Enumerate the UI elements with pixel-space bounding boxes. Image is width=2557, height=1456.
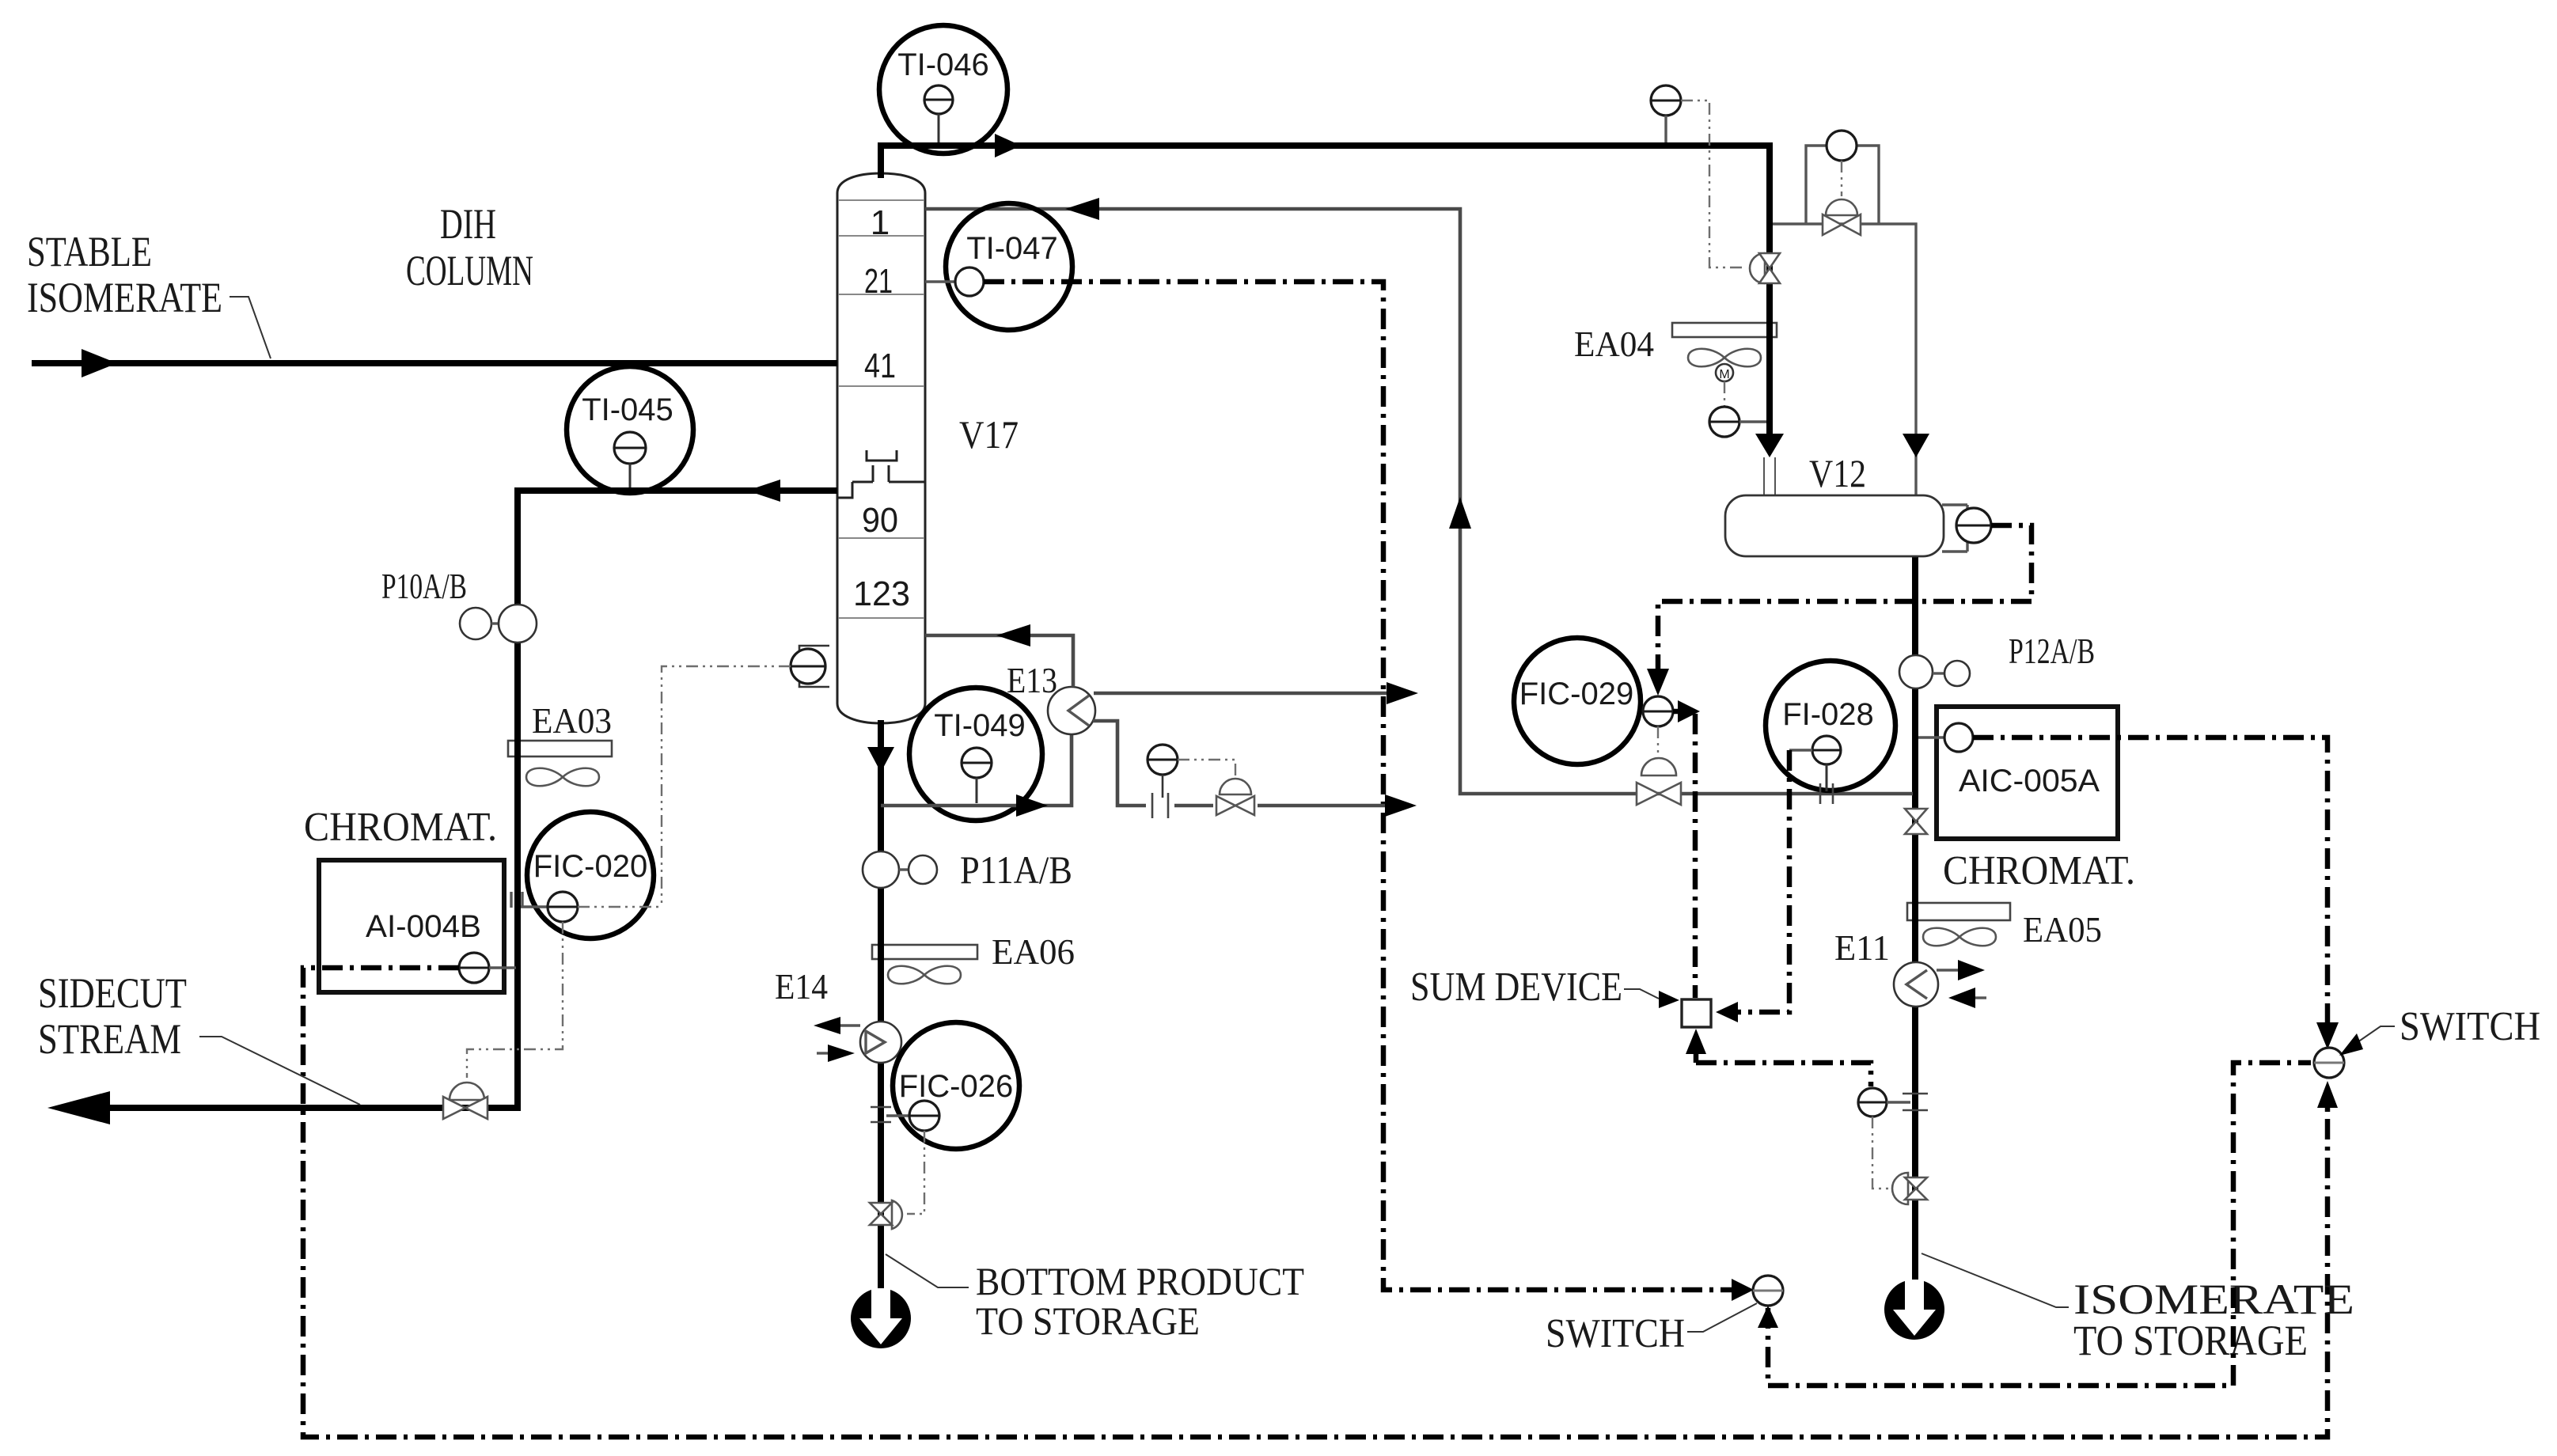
svg-text:21: 21 xyxy=(864,262,893,301)
op FIC-020 xyxy=(521,812,662,938)
reboiler feed line to E13 xyxy=(881,734,1072,806)
overhead arrow right xyxy=(995,134,1021,157)
bypass control valve xyxy=(1823,214,1842,235)
level nozzle instrument on column bottom xyxy=(791,646,829,687)
sidecut arrow at left end xyxy=(47,1091,110,1124)
op FIC-026 xyxy=(871,1022,1019,1149)
chromatograph AIC-005A xyxy=(1918,707,2135,893)
signal V12 level to FIC-029 xyxy=(1658,525,2032,669)
svg-text:E11: E11 xyxy=(1834,927,1890,968)
wire bypass loop xyxy=(1773,146,1916,495)
V12 level instrument xyxy=(1942,505,1991,552)
switch circle left xyxy=(1546,1276,1783,1356)
svg-text:AIC-005A: AIC-005A xyxy=(1959,764,2100,798)
pump P10A/B xyxy=(381,566,537,643)
op TI-047 xyxy=(925,203,1072,330)
svg-text:M: M xyxy=(1719,368,1729,381)
svg-text:P10A/B: P10A/B xyxy=(381,566,467,606)
reflux arrow up xyxy=(1449,497,1471,529)
tray lines xyxy=(838,200,924,618)
svg-text:TO STORAGE: TO STORAGE xyxy=(2073,1317,2308,1364)
product valve xyxy=(1905,809,1927,821)
condensate control valve xyxy=(1216,796,1235,815)
bottoms valve actuator (dome right) xyxy=(892,1200,902,1229)
sidecut valve actuator xyxy=(450,1083,484,1100)
air cooler EA06 xyxy=(872,931,1075,984)
overhead valve actuator (dome facing left) xyxy=(1750,253,1765,283)
leader isomerate to storage xyxy=(1922,1253,2069,1307)
E13 condensate line xyxy=(1093,721,1390,806)
exchanger E11 xyxy=(1834,927,1986,1008)
svg-text:EA03: EA03 xyxy=(532,700,612,741)
bottoms arrow down xyxy=(867,747,894,772)
exchanger E14 xyxy=(775,966,901,1063)
svg-text:EA06: EA06 xyxy=(992,931,1075,972)
svg-text:41: 41 xyxy=(864,347,896,385)
signal FIC-029 to reflux valve xyxy=(1657,726,1659,761)
svg-text:BOTTOM PRODUCT: BOTTOM PRODUCT xyxy=(976,1259,1304,1303)
svg-text:FI-028: FI-028 xyxy=(1782,697,1874,732)
lower product control valve xyxy=(1905,1177,1927,1189)
svg-text:ISOMERATE: ISOMERATE xyxy=(27,274,222,321)
svg-text:90: 90 xyxy=(862,501,898,540)
svg-text:V12: V12 xyxy=(1809,451,1866,495)
svg-text:CHROMAT.: CHROMAT. xyxy=(1943,848,2135,893)
instrument on condensate xyxy=(1148,745,1178,775)
svg-text:FIC-029: FIC-029 xyxy=(1519,677,1634,711)
sidecut control valve xyxy=(443,1097,465,1119)
svg-text:TI-045: TI-045 xyxy=(582,392,673,427)
storage symbol bottoms xyxy=(851,1288,911,1348)
product valve actuator (dome left) xyxy=(1892,1173,1908,1204)
signal AIC-005A to right switch xyxy=(1973,737,2327,1041)
air cooler EA04 xyxy=(1574,320,1777,437)
op FI-028 xyxy=(1766,661,1895,804)
FIC-029 output to sum device xyxy=(1673,711,1695,998)
chromatograph AI-004B xyxy=(304,805,522,992)
op TI-045 xyxy=(567,366,693,493)
instrument circle on bypass xyxy=(1827,131,1857,161)
wire isomerate product line from V12 xyxy=(1912,554,1918,1308)
leader bottom product xyxy=(886,1254,969,1287)
signal to condensate valve xyxy=(1178,760,1235,779)
svg-text:TI-049: TI-049 xyxy=(934,708,1026,743)
svg-text:E13: E13 xyxy=(1007,660,1057,700)
svg-text:TI-046: TI-046 xyxy=(897,47,989,82)
reflux control valve xyxy=(1637,783,1659,805)
svg-text:STABLE: STABLE xyxy=(27,228,152,275)
wire sidecut line xyxy=(101,491,837,1108)
air cooler EA03 xyxy=(508,700,612,786)
svg-text:P11A/B: P11A/B xyxy=(960,847,1072,892)
svg-text:DIH: DIH xyxy=(440,200,496,248)
wire reflux line xyxy=(925,209,1913,794)
pump P12A/B xyxy=(1899,631,2095,688)
signal TI-047 to switch xyxy=(984,282,1732,1290)
sum device square xyxy=(1410,965,1711,1027)
op TI-046 xyxy=(879,25,1007,154)
svg-text:1: 1 xyxy=(871,203,890,242)
orifice ticks xyxy=(1152,793,1168,818)
vapour return from E13 to column xyxy=(925,635,1073,687)
wire feed line STABLE ISOMERATE xyxy=(32,360,837,366)
signal sum device bottom input xyxy=(1696,1045,1871,1086)
switch circle right xyxy=(2314,1004,2540,1078)
overhead arrow down into V12 xyxy=(1755,434,1784,457)
svg-text:STREAM: STREAM xyxy=(38,1015,181,1063)
svg-text:ISOMERATE: ISOMERATE xyxy=(2073,1276,2354,1323)
column V17 shell xyxy=(837,173,925,723)
op TI-049 xyxy=(909,688,1042,821)
condensate valve actuator xyxy=(1220,779,1251,794)
signal level to FIC-020 xyxy=(662,666,791,907)
bypass arrow down into V12 xyxy=(1903,434,1929,457)
svg-text:V17: V17 xyxy=(959,412,1019,457)
flow tap near E11 xyxy=(1858,1088,1928,1117)
svg-text:FIC-026: FIC-026 xyxy=(899,1069,1014,1104)
svg-text:SWITCH: SWITCH xyxy=(1546,1311,1685,1356)
op FIC-029 xyxy=(1514,638,1641,764)
reboiler E13 xyxy=(1007,660,1095,734)
overhead control valve on vertical line xyxy=(1759,253,1780,268)
signal FIC-020 to sidecut valve xyxy=(467,922,563,1078)
reflux arrow into column xyxy=(1065,198,1099,220)
wire bottoms line xyxy=(878,720,884,1317)
svg-text:SUM DEVICE: SUM DEVICE xyxy=(1410,965,1622,1010)
overhead pressure instrument TI top xyxy=(1651,85,1681,116)
svg-text:COLUMN: COLUMN xyxy=(406,247,533,294)
feed arrow xyxy=(82,349,117,377)
signal FI-028 to sum device xyxy=(1738,750,1789,1012)
storage symbol isomerate xyxy=(1884,1280,1944,1340)
signal FIC-026 to bottoms valve xyxy=(907,1131,924,1214)
FIC-029 summing theta xyxy=(1643,696,1673,726)
svg-text:FIC-020: FIC-020 xyxy=(533,849,648,884)
air cooler EA05 xyxy=(1907,900,2102,950)
signal left switch loop to right switch xyxy=(1768,1063,2311,1386)
bypass valve actuator xyxy=(1826,199,1857,215)
sidecut draw tray detail xyxy=(837,450,924,498)
svg-text:TI-047: TI-047 xyxy=(966,231,1058,266)
sidecut arrow near column xyxy=(747,480,780,502)
svg-text:EA04: EA04 xyxy=(1574,324,1654,364)
svg-text:E14: E14 xyxy=(775,966,828,1007)
drum V12 xyxy=(1725,451,1944,556)
svg-text:SWITCH: SWITCH xyxy=(2400,1004,2540,1049)
signal to overhead valve xyxy=(1681,100,1744,267)
bottoms control valve xyxy=(870,1203,892,1214)
E13 outlet top xyxy=(1094,692,1390,696)
bypass valve signal xyxy=(1841,161,1842,196)
signal AI-004B long loop to right switch xyxy=(303,968,2327,1437)
svg-text:P12A/B: P12A/B xyxy=(2009,631,2095,671)
reflux valve actuator xyxy=(1641,758,1676,775)
pump P11A/B xyxy=(863,847,1072,892)
svg-text:TO STORAGE: TO STORAGE xyxy=(976,1299,1200,1343)
svg-text:CHROMAT.: CHROMAT. xyxy=(304,805,497,850)
svg-text:EA05: EA05 xyxy=(2023,909,2102,950)
signal tap to product valve xyxy=(1872,1117,1893,1189)
inlet pipe into V12 xyxy=(1764,457,1775,548)
svg-text:123: 123 xyxy=(853,574,910,613)
wire overhead vapour line xyxy=(881,146,1770,435)
svg-text:SIDECUT: SIDECUT xyxy=(38,969,187,1017)
svg-text:AI-004B: AI-004B xyxy=(366,909,481,944)
